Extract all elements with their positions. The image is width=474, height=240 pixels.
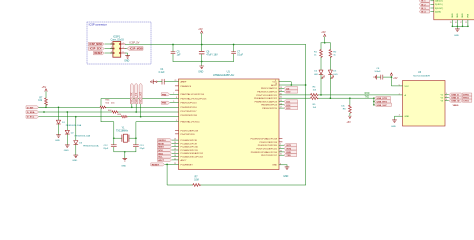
global label right row2 bbox=[257, 90, 297, 94]
svg-text:RXD: RXD bbox=[365, 93, 370, 95]
pin GND U3 bbox=[395, 115, 410, 120]
global label right row5 bbox=[255, 100, 298, 104]
pin stub PD4 bbox=[175, 134, 195, 136]
svg-text:ICSP connector: ICSP connector bbox=[89, 23, 107, 27]
svg-text:C12: C12 bbox=[104, 145, 109, 147]
svg-text:R66: R66 bbox=[105, 100, 110, 102]
IC J2 body top right bbox=[434, 0, 474, 20]
ground U3 bbox=[391, 120, 397, 128]
resistor R8 1M bbox=[193, 176, 201, 186]
svg-text:6: 6 bbox=[123, 51, 124, 53]
wire reset pullup loop bbox=[167, 164, 305, 185]
svg-text:R2: R2 bbox=[333, 51, 337, 53]
ground rail caps bbox=[198, 66, 204, 73]
node diode3 tap bbox=[75, 116, 77, 118]
wire +5V to U3 pin1 bbox=[391, 76, 410, 88]
wire ICSP left pins bbox=[105, 44, 113, 53]
global label U3 row2b bbox=[462, 96, 471, 100]
pin GND wire bbox=[272, 163, 287, 166]
pin TXD wire right bbox=[256, 93, 310, 96]
svg-text:GND: GND bbox=[462, 13, 464, 18]
svg-text:PD2/INT0/PCI18: PD2/INT0/PCI18 bbox=[181, 115, 198, 117]
global label ADC7 bbox=[158, 158, 188, 162]
wire crystal branches bbox=[113, 137, 137, 139]
global label right bottom row2 bbox=[256, 147, 296, 151]
svg-text:TXC16MHz: TXC16MHz bbox=[116, 130, 129, 132]
global label stack row3 bbox=[374, 103, 391, 107]
pin 5 bbox=[110, 51, 113, 53]
svg-text:D_SCL: D_SCL bbox=[27, 117, 35, 119]
svg-text:ICSP_SCK: ICSP_SCK bbox=[90, 48, 102, 51]
svg-text:PD1/TXD/PCI17: PD1/TXD/PCI17 bbox=[181, 111, 198, 113]
svg-text:PESD5V0L1UA: PESD5V0L1UA bbox=[83, 145, 99, 148]
svg-text:5: 5 bbox=[446, 96, 447, 98]
svg-text:1k: 1k bbox=[333, 54, 336, 56]
global label XTAL1 row bbox=[161, 93, 204, 97]
pin 4 bbox=[121, 47, 126, 49]
wire +5V rail bbox=[125, 44, 305, 46]
svg-text:ICSP1: ICSP1 bbox=[113, 36, 121, 39]
global label right row7 bbox=[262, 107, 297, 111]
svg-text:D_INT: D_INT bbox=[27, 107, 34, 109]
svg-text:C8: C8 bbox=[376, 68, 380, 70]
svg-text:GND: GND bbox=[454, 35, 459, 37]
pin PB6 stub bbox=[175, 85, 192, 88]
svg-text:PB5/SCK/PCI5: PB5/SCK/PCI5 bbox=[262, 108, 277, 110]
svg-text:PD4/T0/PCI20: PD4/T0/PCI20 bbox=[181, 134, 196, 136]
pin stub row3 bbox=[175, 89, 178, 91]
svg-text:PB0/ADC6: PB0/ADC6 bbox=[181, 85, 192, 88]
svg-text:GND: GND bbox=[452, 13, 454, 18]
node diode1 tap bbox=[58, 106, 60, 108]
global label right bottom row1 bbox=[258, 144, 297, 148]
svg-text:D_SDA: D_SDA bbox=[27, 111, 35, 114]
pin Y1 U3 out bbox=[440, 93, 448, 96]
global label INT left edge bbox=[26, 106, 46, 110]
global label PC2 bbox=[158, 145, 199, 149]
svg-text:TXD: TXD bbox=[365, 97, 370, 99]
svg-text:MCU_RX: MCU_RX bbox=[131, 92, 134, 103]
node LED1 wire1 bbox=[320, 94, 322, 96]
svg-text:+5V: +5V bbox=[42, 86, 47, 89]
power +5V U3 bbox=[390, 73, 398, 80]
svg-text:PD0/RXD/PCI16: PD0/RXD/PCI16 bbox=[181, 107, 198, 109]
svg-text:PC0/ADC0/PCI8: PC0/ADC0/PCI8 bbox=[181, 139, 198, 142]
svg-text:U3: U3 bbox=[418, 71, 422, 74]
LED D5 bbox=[328, 58, 338, 99]
wire RXD to labels bbox=[318, 97, 377, 99]
svg-text:47uF / 16V: 47uF / 16V bbox=[206, 54, 218, 56]
ground ICSP bbox=[124, 56, 130, 63]
svg-text:4: 4 bbox=[123, 47, 124, 49]
power +5V inverted R6 bbox=[346, 116, 351, 124]
svg-text:D2: D2 bbox=[71, 132, 75, 134]
svg-text:0.1uF: 0.1uF bbox=[159, 72, 165, 74]
global label J2 row3 bbox=[419, 7, 443, 10]
svg-text:GND: GND bbox=[405, 116, 410, 118]
svg-text:1k: 1k bbox=[314, 54, 317, 56]
svg-text:C13: C13 bbox=[140, 145, 145, 147]
svg-text:GND: GND bbox=[55, 140, 60, 142]
svg-text:GND: GND bbox=[391, 126, 396, 128]
svg-text:VSS: VSS bbox=[468, 13, 470, 18]
svg-text:PC3/ADC3/PCI11: PC3/ADC3/PCI11 bbox=[181, 149, 199, 152]
svg-text:D1: D1 bbox=[62, 122, 66, 124]
ground D2 bbox=[64, 145, 70, 152]
node reset junction bbox=[166, 164, 168, 166]
svg-text:GND: GND bbox=[72, 160, 77, 162]
svg-text:+5V: +5V bbox=[198, 28, 203, 31]
wire signal row2 into MCU bbox=[181, 111, 198, 113]
svg-text:RESET: RESET bbox=[94, 52, 103, 55]
ground D3 bbox=[72, 155, 78, 162]
wire signal row1 into MCU bbox=[181, 107, 198, 109]
net label ICSP_5V bbox=[130, 41, 140, 44]
global label PC5 bbox=[158, 155, 204, 159]
svg-text:31: 31 bbox=[280, 154, 282, 156]
global label U3 row2a bbox=[449, 96, 461, 100]
svg-text:GND: GND bbox=[283, 176, 288, 178]
global label right row6 bbox=[261, 103, 297, 107]
wire crystal bottom join bbox=[114, 151, 136, 158]
capacitor C4 bbox=[158, 69, 165, 84]
pin text right extra row b bbox=[259, 142, 282, 144]
svg-text:74LVC1G14DBVR: 74LVC1G14DBVR bbox=[413, 75, 431, 77]
svg-text:ICSP_MISO: ICSP_MISO bbox=[89, 43, 102, 46]
svg-text:3: 3 bbox=[399, 115, 400, 117]
svg-text:1k5: 1k5 bbox=[313, 90, 317, 92]
svg-text:PB2/SS/OC1B/PCI2: PB2/SS/OC1B/PCI2 bbox=[257, 92, 277, 94]
svg-text:28: 28 bbox=[174, 155, 176, 157]
svg-text:LED: LED bbox=[314, 74, 319, 76]
vertical global label wire2 bbox=[135, 83, 138, 113]
capacitor C8 bbox=[374, 68, 391, 79]
svg-text:ATMEGA328P-AU: ATMEGA328P-AU bbox=[213, 73, 234, 77]
svg-text:MCU_INT: MCU_INT bbox=[139, 91, 142, 102]
node junction C5 bbox=[172, 44, 174, 46]
connector ICSP1 bbox=[111, 36, 125, 58]
wire rail drop to VCC pins bbox=[305, 45, 307, 186]
svg-text:PC2/ADC2/PCI10: PC2/ADC2/PCI10 bbox=[181, 146, 199, 149]
svg-text:GND: GND bbox=[198, 71, 203, 73]
global label SDA left edge bbox=[26, 111, 38, 115]
net label TXD bbox=[365, 97, 370, 99]
global label U3 row1a bbox=[449, 93, 461, 97]
crystal Y1 bbox=[116, 127, 129, 142]
svg-text:25: 25 bbox=[174, 145, 176, 147]
pin 2 U3 input bbox=[399, 93, 407, 96]
svg-text:C5: C5 bbox=[177, 52, 181, 54]
svg-text:3(DOUT): 3(DOUT) bbox=[435, 8, 443, 10]
svg-text:24: 24 bbox=[174, 142, 176, 144]
svg-text:PB6/XTAL1/CLKI/PCI14: PB6/XTAL1/CLKI/PCI14 bbox=[181, 93, 205, 96]
svg-text:0.1uF: 0.1uF bbox=[237, 54, 243, 56]
svg-text:PC6/RESET: PC6/RESET bbox=[181, 164, 194, 166]
svg-text:17: 17 bbox=[460, 22, 462, 24]
resistor R1 1k bbox=[314, 50, 322, 58]
wire caps bottom bbox=[173, 61, 234, 66]
svg-text:22pF: 22pF bbox=[103, 148, 109, 150]
LED D4 bbox=[314, 58, 325, 95]
svg-text:2(LRCL): 2(LRCL) bbox=[435, 4, 443, 6]
resistor R4 inline bbox=[310, 87, 318, 97]
svg-text:7: 7 bbox=[173, 93, 174, 95]
pin Y3 U3 out bbox=[440, 99, 448, 102]
global label RESET bbox=[151, 163, 193, 167]
svg-text:6: 6 bbox=[446, 99, 447, 101]
global label RESET bbox=[94, 51, 105, 55]
svg-text:PESD5V0L1UA: PESD5V0L1UA bbox=[75, 134, 91, 137]
net label RXD bbox=[365, 93, 370, 95]
svg-text:PB3/MOSI/OC2A/PCI3: PB3/MOSI/OC2A/PCI3 bbox=[255, 100, 278, 103]
node diode2 tap bbox=[66, 111, 68, 113]
pin VCC wire right bbox=[272, 80, 291, 85]
diode D1 bbox=[56, 107, 81, 134]
svg-text:PD5/T1/OC0B/PCI21: PD5/T1/OC0B/PCI21 bbox=[256, 95, 277, 97]
svg-text:8: 8 bbox=[176, 97, 177, 99]
svg-text:MCU_TX: MCU_TX bbox=[135, 92, 138, 102]
capacitor C5 bbox=[171, 45, 181, 62]
svg-text:+5V: +5V bbox=[346, 121, 351, 124]
global label SCL left edge bbox=[26, 115, 38, 119]
wire signal 1 bbox=[39, 106, 179, 108]
node pullup wire2 bbox=[43, 111, 45, 113]
pin text right extra row a bbox=[251, 138, 283, 141]
svg-text:4(DIN): 4(DIN) bbox=[435, 11, 441, 13]
pin RXD wire right bbox=[254, 97, 310, 100]
svg-text:VBUS: VBUS bbox=[453, 105, 459, 107]
resistor R64 inline wire1 bbox=[100, 100, 115, 109]
resistor R6 10k pull bbox=[341, 98, 351, 116]
svg-text:26: 26 bbox=[174, 149, 176, 151]
svg-text:ICSP_MOSI: ICSP_MOSI bbox=[130, 48, 143, 51]
global label PC4 bbox=[158, 152, 204, 156]
capacitor C12 bbox=[103, 145, 116, 152]
svg-text:4: 4 bbox=[446, 93, 447, 95]
ground crystal bbox=[121, 158, 127, 167]
svg-text:GND: GND bbox=[124, 61, 129, 63]
svg-text:17: 17 bbox=[280, 107, 282, 109]
svg-text:CTS1: CTS1 bbox=[463, 101, 469, 103]
power +5V bbox=[198, 28, 203, 45]
svg-text:GND: GND bbox=[64, 150, 69, 152]
ground MCU bbox=[283, 167, 289, 178]
svg-text:PESD5V0L1UA: PESD5V0L1UA bbox=[66, 124, 82, 127]
wire label stack drop bbox=[373, 97, 375, 105]
wire XTAL1 to crystal bbox=[101, 97, 207, 122]
svg-text:PD0/RXD/CPU/ADL/PCI16: PD0/RXD/CPU/ADL/PCI16 bbox=[251, 151, 278, 154]
svg-text:R7: R7 bbox=[195, 176, 199, 178]
svg-text:10k: 10k bbox=[341, 106, 345, 108]
svg-text:Y1: Y1 bbox=[122, 127, 126, 129]
svg-text:R5: R5 bbox=[313, 104, 317, 106]
svg-text:2: 2 bbox=[399, 93, 400, 95]
global label U3 row3a bbox=[449, 99, 461, 103]
node junction C7 bbox=[233, 44, 235, 46]
IC U1 ATMEGA328P-AU body bbox=[179, 70, 280, 169]
svg-text:1k5: 1k5 bbox=[313, 107, 317, 109]
pin 6 bbox=[121, 51, 126, 53]
wire crystal left column bbox=[101, 122, 114, 145]
svg-text:PC4/ADC4/SDA/PCI12: PC4/ADC4/SDA/PCI12 bbox=[181, 152, 204, 155]
svg-text:C4: C4 bbox=[160, 69, 164, 71]
capacitor C7 bbox=[232, 45, 244, 62]
svg-text:C6: C6 bbox=[206, 52, 210, 54]
power +5V LEDs bbox=[321, 31, 326, 43]
vertical global label wire1 bbox=[130, 83, 133, 108]
global label PC0 bbox=[158, 139, 198, 143]
pin XTAL2 row bbox=[176, 120, 200, 123]
power +5V pullup bbox=[42, 86, 48, 98]
net label U3 below bbox=[453, 105, 459, 107]
global label U3 row3b bbox=[462, 99, 471, 103]
svg-text:SDA: SDA bbox=[158, 152, 163, 155]
svg-text:2: 2 bbox=[123, 42, 124, 44]
global label PB5 row bbox=[161, 101, 197, 105]
ground C4 rotated bbox=[151, 80, 158, 84]
svg-text:USB_SLP: USB_SLP bbox=[377, 105, 388, 107]
global label right bottom row4 bbox=[261, 154, 297, 158]
svg-text:550: 550 bbox=[105, 102, 109, 104]
svg-text:D5: D5 bbox=[333, 71, 337, 73]
svg-text:PD3/OC2B/PCI19: PD3/OC2B/PCI19 bbox=[181, 131, 199, 133]
global label stack row2 bbox=[374, 100, 390, 104]
wire pin6 to gnd bbox=[125, 53, 127, 56]
svg-text:VCC: VCC bbox=[405, 86, 410, 88]
svg-text:23: 23 bbox=[174, 139, 176, 141]
wire LED split bbox=[321, 42, 330, 50]
svg-text:100nF: 100nF bbox=[374, 71, 381, 73]
global label PC1 bbox=[158, 142, 198, 146]
svg-text:PC1/ADC1/PCI9: PC1/ADC1/PCI9 bbox=[181, 142, 198, 145]
resistor R65 inline wire2 bbox=[108, 110, 118, 113]
wire XTAL2 rail bbox=[136, 122, 179, 145]
svg-text:PD5/T1/OC0B/PCI21: PD5/T1/OC0B/PCI21 bbox=[256, 148, 277, 150]
svg-text:ADC7: ADC7 bbox=[181, 159, 188, 162]
pin numbers J2 bottom bbox=[450, 22, 467, 24]
svg-text:22: 22 bbox=[174, 158, 176, 160]
svg-text:15: 15 bbox=[280, 100, 282, 102]
svg-text:2: 2 bbox=[280, 147, 281, 149]
svg-text:32: 32 bbox=[280, 97, 282, 99]
svg-text:PD2/INT0/CPU/ADL/PCI18: PD2/INT0/CPU/ADL/PCI18 bbox=[251, 138, 278, 141]
svg-text:21: 21 bbox=[465, 22, 467, 24]
global label ICSP_SCK bbox=[89, 47, 105, 51]
wire signal 3 bbox=[39, 116, 179, 118]
ground J2 bbox=[454, 29, 460, 37]
wire J2 bottom pins bbox=[452, 20, 469, 29]
resistor R5 inline bbox=[310, 97, 318, 109]
pin names J2 bottom vertical bbox=[452, 13, 470, 18]
ICSP connector dashed outline box bbox=[87, 22, 151, 64]
wire TXD to U3 bbox=[318, 94, 403, 96]
resistor R66 inline wire3 bbox=[117, 114, 127, 118]
svg-text:AREF: AREF bbox=[181, 81, 187, 84]
svg-text:LED: LED bbox=[333, 74, 338, 76]
svg-text:R6: R6 bbox=[343, 109, 347, 111]
diode D3 bbox=[74, 117, 99, 155]
global label U3 row1b bbox=[462, 93, 471, 97]
svg-text:14: 14 bbox=[280, 90, 282, 92]
svg-text:16: 16 bbox=[280, 103, 282, 105]
resistor R7 10k bbox=[38, 98, 47, 108]
global label J2 row1 bbox=[419, 0, 443, 3]
svg-text:PD1/TXD/PCI17: PD1/TXD/PCI17 bbox=[261, 155, 278, 157]
wire signal row3 into MCU bbox=[181, 115, 198, 117]
svg-text:+5V: +5V bbox=[393, 77, 398, 80]
vertical global label wire3 bbox=[139, 83, 142, 117]
svg-text:13: 13 bbox=[280, 87, 282, 89]
svg-text:R4: R4 bbox=[313, 87, 317, 89]
ground D1 bbox=[55, 135, 61, 142]
global label right row1 bbox=[261, 87, 298, 91]
pin AREF 21 bbox=[165, 80, 187, 83]
node R6 tap bbox=[349, 97, 351, 99]
svg-text:5: 5 bbox=[399, 84, 400, 86]
pin 2 bbox=[121, 42, 126, 44]
svg-text:1: 1 bbox=[280, 144, 281, 146]
svg-text:21: 21 bbox=[175, 80, 177, 82]
svg-text:PB4/MISO/PCI4: PB4/MISO/PCI4 bbox=[261, 105, 278, 107]
capacitor C13 bbox=[133, 145, 145, 152]
svg-text:GND: GND bbox=[272, 165, 277, 167]
svg-text:PB7/XTAL2/TOSC2/PCI15: PB7/XTAL2/TOSC2/PCI15 bbox=[181, 97, 208, 100]
global label J2 row4 bbox=[419, 10, 441, 13]
svg-text:PD6/AIN0/OC0A/PCI22: PD6/AIN0/OC0A/PCI22 bbox=[254, 97, 278, 100]
svg-text:C7: C7 bbox=[237, 52, 241, 54]
pin stub PD3 bbox=[175, 131, 199, 133]
svg-text:10M: 10M bbox=[194, 179, 199, 181]
node LED2 wire2 bbox=[330, 97, 332, 99]
svg-text:30: 30 bbox=[280, 150, 282, 152]
svg-text:29: 29 bbox=[174, 163, 176, 165]
svg-text:D3: D3 bbox=[79, 143, 83, 145]
svg-text:+5V: +5V bbox=[321, 31, 326, 34]
svg-text:PD3/OC2B/PCI19: PD3/OC2B/PCI19 bbox=[259, 142, 277, 144]
global label ICSP_MISO bbox=[89, 42, 105, 46]
svg-text:Conn_02x03: Conn_02x03 bbox=[111, 39, 125, 41]
global label PC3 bbox=[158, 149, 199, 153]
IC U3 body bbox=[403, 71, 446, 126]
svg-text:1uF: 1uF bbox=[177, 54, 182, 56]
svg-text:GND: GND bbox=[457, 13, 459, 18]
svg-text:GND: GND bbox=[121, 166, 126, 168]
node junction C6 bbox=[201, 44, 203, 46]
diode D2 bbox=[65, 112, 90, 145]
global label right bottom row3 bbox=[251, 150, 297, 154]
svg-text:31: 31 bbox=[280, 93, 282, 95]
svg-text:16: 16 bbox=[455, 22, 457, 24]
svg-text:R1: R1 bbox=[314, 51, 318, 53]
svg-text:4k6: 4k6 bbox=[111, 102, 115, 104]
pin 1 bbox=[110, 42, 113, 44]
pin AVCC wire right bbox=[271, 84, 306, 87]
svg-text:PB1/OC1A/PCI1: PB1/OC1A/PCI1 bbox=[261, 87, 278, 90]
svg-text:RESET: RESET bbox=[152, 164, 160, 166]
svg-text:1(BCLK): 1(BCLK) bbox=[435, 1, 443, 3]
global label stack row1 bbox=[374, 97, 390, 101]
svg-text:680: 680 bbox=[117, 114, 121, 116]
capacitor C6 bbox=[199, 45, 218, 62]
svg-text:9: 9 bbox=[173, 101, 174, 103]
pin 3 bbox=[110, 47, 113, 49]
resistor R2 1k bbox=[329, 50, 337, 58]
svg-text:ADC7: ADC7 bbox=[158, 159, 165, 162]
global label ICSP_MOSI bbox=[125, 47, 143, 51]
svg-text:TXD: TXD bbox=[286, 155, 291, 157]
svg-text:PB5/SCK/PCI13: PB5/SCK/PCI13 bbox=[181, 103, 198, 105]
pin Y2 U3 out bbox=[440, 96, 448, 99]
